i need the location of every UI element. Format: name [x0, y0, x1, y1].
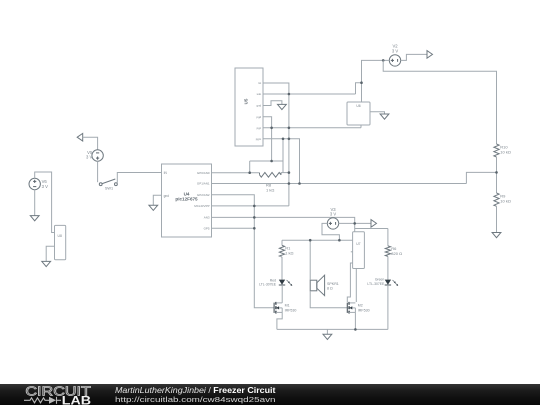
svg-text:LTL-307EE: LTL-307EE — [259, 283, 277, 287]
svg-text:GP1/AN1: GP1/AN1 — [197, 182, 210, 186]
svg-text:U7: U7 — [356, 242, 360, 246]
svg-text:3 V: 3 V — [86, 155, 92, 160]
svg-text:3 V: 3 V — [330, 212, 336, 217]
svg-text:U8: U8 — [58, 234, 62, 238]
svg-text:Green: Green — [375, 277, 385, 281]
svg-text:IN: IN — [164, 171, 168, 175]
svg-text:gnd: gnd — [257, 104, 262, 108]
svg-text:IRF530: IRF530 — [358, 308, 370, 312]
svg-text:U5: U5 — [244, 98, 249, 104]
svg-text:gnd: gnd — [164, 194, 170, 198]
svg-text:1 kΩ: 1 kΩ — [285, 250, 293, 255]
svg-text:IRF530: IRF530 — [285, 308, 297, 312]
svg-text:pic12F675: pic12F675 — [175, 197, 198, 202]
svg-text:M2: M2 — [358, 303, 363, 307]
svg-text:pgc: pgc — [257, 126, 262, 130]
svg-text:10 kΩ: 10 kΩ — [500, 199, 511, 204]
svg-text:10 kΩ: 10 kΩ — [500, 150, 511, 155]
svg-text:GP2/AN2: GP2/AN2 — [197, 193, 210, 197]
svg-text:AN3: AN3 — [204, 215, 210, 219]
svg-text:GP0/AN0: GP0/AN0 — [197, 171, 210, 175]
svg-text:LTL-307EE: LTL-307EE — [367, 282, 385, 286]
svg-text:MartinLutherKingJinbei / Freez: MartinLutherKingJinbei / Freezer Circuit — [115, 386, 276, 395]
svg-text:sdo: sdo — [257, 92, 262, 96]
svg-text:U6: U6 — [356, 104, 360, 108]
svg-text:GP5: GP5 — [204, 227, 210, 231]
svg-text:pgm: pgm — [256, 137, 262, 141]
svg-text:M1: M1 — [285, 303, 290, 307]
svg-text:pgd: pgd — [257, 115, 262, 119]
svg-text:http://circuitlab.com/cw84swqd: http://circuitlab.com/cw84swqd25avn — [115, 395, 276, 404]
svg-text:LAB: LAB — [62, 395, 91, 405]
svg-text:rst: rst — [258, 81, 261, 85]
svg-text:820 Ω: 820 Ω — [391, 251, 402, 256]
svg-text:8 Ω: 8 Ω — [327, 287, 333, 291]
svg-text:MCLR/VPP: MCLR/VPP — [194, 204, 209, 208]
svg-text:SW1: SW1 — [105, 187, 113, 191]
svg-text:3 V: 3 V — [392, 48, 398, 53]
svg-text:3 V: 3 V — [42, 184, 48, 189]
svg-text:1 kΩ: 1 kΩ — [266, 188, 274, 193]
svg-text:SPKR1: SPKR1 — [327, 282, 339, 286]
